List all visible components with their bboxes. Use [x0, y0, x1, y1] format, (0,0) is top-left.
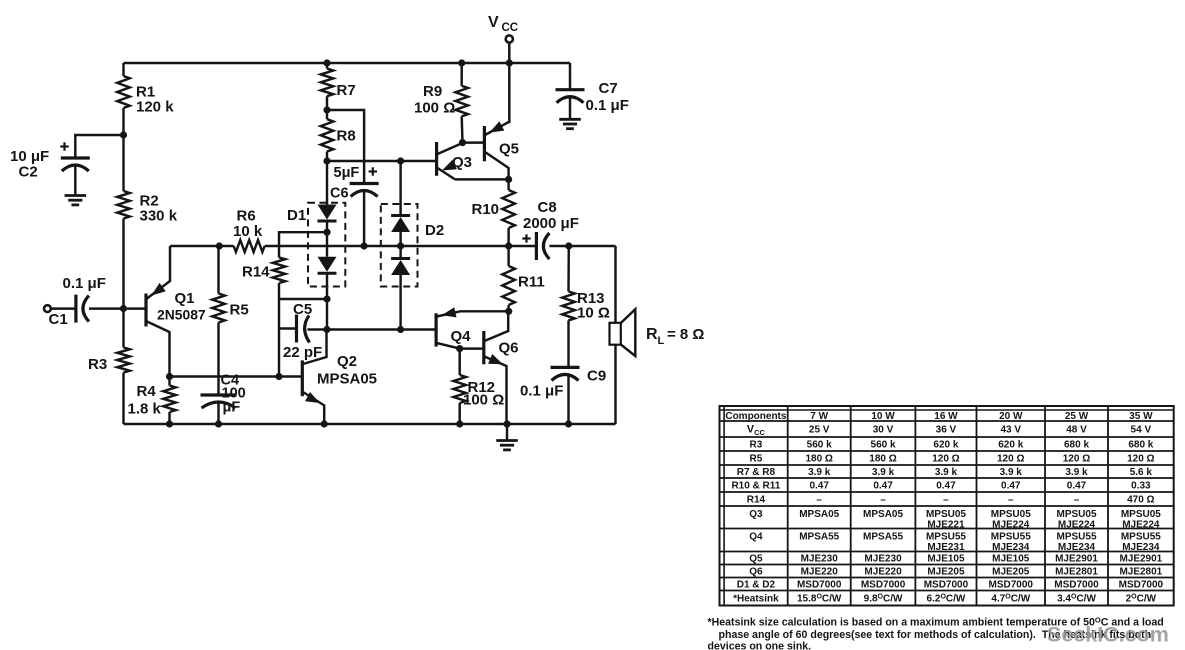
svg-text:R4: R4 — [137, 383, 157, 400]
svg-text:120 Ω: 120 Ω — [932, 454, 959, 465]
C6 plus — [369, 167, 377, 175]
svg-text:R14: R14 — [242, 264, 270, 281]
resistor R5 — [212, 246, 225, 395]
C2 ground wire — [74, 167, 76, 196]
svg-text:Q3: Q3 — [452, 154, 472, 171]
svg-text:30 V: 30 V — [873, 425, 894, 436]
node R7-R8 — [323, 106, 330, 113]
svg-text:20 W: 20 W — [999, 411, 1023, 422]
svg-text:MPSU05: MPSU05 — [1121, 509, 1161, 520]
svg-text:5.6 k: 5.6 k — [1130, 467, 1153, 478]
diode D1 — [318, 161, 337, 299]
svg-text:C7: C7 — [599, 80, 618, 97]
label R14 — [242, 264, 270, 281]
svg-text:10 Ω: 10 Ω — [577, 305, 610, 322]
resistor R10 — [502, 179, 515, 246]
speaker RL — [610, 309, 636, 356]
node C8 out — [565, 242, 572, 249]
ground below C7 — [559, 119, 581, 128]
label C9 — [520, 368, 606, 400]
node Q3 collector — [459, 139, 466, 146]
label D1 — [287, 207, 306, 224]
label R3 — [88, 356, 107, 373]
label C2 — [10, 148, 49, 181]
svg-text:R11: R11 — [518, 274, 545, 291]
svg-text:36 V: 36 V — [936, 425, 957, 436]
svg-text:R5: R5 — [750, 454, 763, 465]
svg-text:10 μF: 10 μF — [10, 148, 49, 165]
svg-text:μF: μF — [223, 400, 241, 416]
svg-text:0.1 μF: 0.1 μF — [63, 275, 106, 292]
svg-text:MJE234: MJE234 — [1058, 542, 1096, 553]
svg-text:MSD7000: MSD7000 — [1119, 580, 1164, 591]
transistor Q4 — [436, 307, 509, 348]
svg-text:Q4: Q4 — [749, 532, 763, 543]
transistor Q2 — [302, 330, 326, 425]
svg-text:MJE2901: MJE2901 — [1055, 554, 1098, 565]
svg-text:C9: C9 — [587, 368, 606, 385]
wire to Q3 base — [327, 160, 437, 162]
svg-text:Q2: Q2 — [337, 353, 357, 370]
svg-text:C8: C8 — [538, 199, 557, 216]
svg-text:15.8OC/W: 15.8OC/W — [797, 593, 842, 604]
svg-text:D1 & D2: D1 & D2 — [737, 580, 776, 591]
C8 plus — [522, 234, 530, 242]
node Q1 emitter junction — [216, 242, 223, 249]
node Q2e gnd — [321, 420, 328, 427]
svg-text:R10 & R11: R10 & R11 — [731, 481, 780, 492]
svg-text:120 Ω: 120 Ω — [1063, 454, 1090, 465]
svg-text:–: – — [880, 495, 886, 506]
svg-text:100 Ω: 100 Ω — [463, 392, 504, 409]
ground rail — [124, 423, 616, 425]
svg-text:2000 μF: 2000 μF — [523, 215, 579, 232]
svg-text:C1: C1 — [49, 311, 68, 328]
resistor R6 — [234, 240, 265, 252]
node Q2 collector — [323, 326, 330, 333]
svg-text:0.47: 0.47 — [809, 481, 829, 492]
transistor Q1 — [146, 246, 170, 377]
node Q1 collector — [166, 373, 173, 380]
svg-text:V: V — [488, 14, 499, 31]
node D1 bottom — [323, 295, 330, 302]
svg-text:120 Ω: 120 Ω — [1127, 454, 1154, 465]
svg-text:MJE105: MJE105 — [927, 554, 965, 565]
svg-text:MJE224: MJE224 — [992, 520, 1030, 531]
resistor R1 — [117, 63, 130, 135]
rail right of C8 — [549, 245, 615, 247]
svg-text:MPSU05: MPSU05 — [926, 509, 966, 520]
resistor R4 — [163, 377, 176, 425]
label R1 — [136, 84, 174, 116]
speaker feed — [614, 246, 616, 323]
svg-text:R: R — [646, 326, 658, 343]
svg-text:MPSA55: MPSA55 — [799, 532, 839, 543]
table grid — [720, 406, 1174, 606]
C7 ground stem — [569, 98, 571, 119]
svg-text:MJE220: MJE220 — [801, 567, 839, 578]
R14 bottom wire — [279, 299, 327, 377]
node D2 mid on rail — [397, 242, 404, 249]
svg-text:R14: R14 — [747, 495, 766, 506]
Vcc label — [488, 14, 518, 34]
input terminal C1 — [44, 305, 51, 312]
label D2 — [425, 222, 444, 239]
resistor R7 — [321, 63, 334, 110]
label Q5 — [499, 141, 519, 158]
svg-text:16 W: 16 W — [934, 411, 958, 422]
svg-text:MSD7000: MSD7000 — [924, 580, 969, 591]
svg-text:MSD7000: MSD7000 — [1054, 580, 1099, 591]
svg-text:0.1 μF: 0.1 μF — [520, 383, 563, 400]
svg-text:CC: CC — [502, 22, 519, 34]
node D2 top — [397, 157, 404, 164]
svg-text:620 k: 620 k — [998, 440, 1023, 451]
svg-text:MJE234: MJE234 — [992, 542, 1030, 553]
svg-text:Q3: Q3 — [749, 509, 763, 520]
svg-text:L: L — [658, 335, 665, 347]
capacitor C4 — [201, 395, 237, 408]
svg-text:560 k: 560 k — [871, 440, 896, 451]
svg-text:C5: C5 — [293, 301, 312, 318]
diode D2 — [391, 161, 410, 330]
label C8 — [523, 199, 579, 232]
wire Q2C to Q4 base — [327, 328, 436, 330]
resistor R13 — [562, 246, 575, 367]
wire R7R8 junction to C6 — [328, 110, 364, 184]
svg-text:0.33: 0.33 — [1131, 481, 1151, 492]
svg-text:VCC: VCC — [747, 424, 766, 438]
svg-text:10 W: 10 W — [871, 411, 895, 422]
svg-text:MPSU05: MPSU05 — [1056, 509, 1096, 520]
svg-text:MJE221: MJE221 — [927, 520, 965, 531]
C4 ground stem — [217, 403, 219, 424]
svg-text:Q5: Q5 — [749, 554, 763, 565]
svg-text:330 k: 330 k — [140, 208, 178, 225]
svg-text:6.2OC/W: 6.2OC/W — [927, 593, 966, 604]
svg-text:–: – — [816, 495, 822, 506]
node Q4 collector — [456, 345, 463, 352]
capacitor C5 — [279, 315, 327, 343]
label R8 — [337, 128, 356, 145]
node D1 mid — [323, 229, 330, 236]
svg-text:MPSU55: MPSU55 — [1056, 532, 1096, 543]
svg-text:22 pF: 22 pF — [283, 344, 322, 361]
D2 dashed box — [381, 204, 418, 287]
label R10 — [472, 201, 500, 218]
svg-text:9.8OC/W: 9.8OC/W — [864, 593, 903, 604]
svg-text:25 W: 25 W — [1065, 411, 1089, 422]
capacitor C9 — [551, 367, 580, 380]
svg-text:R8: R8 — [337, 128, 356, 145]
svg-text:120 k: 120 k — [136, 99, 174, 116]
label C5 — [283, 301, 322, 361]
table text — [725, 411, 1163, 604]
label R12 — [463, 379, 504, 409]
svg-text:MJE234: MJE234 — [1122, 542, 1160, 553]
svg-text:0.47: 0.47 — [1067, 481, 1087, 492]
svg-text:7 W: 7 W — [810, 411, 828, 422]
svg-text:48 V: 48 V — [1066, 425, 1087, 436]
svg-text:Q6: Q6 — [749, 567, 763, 578]
svg-text:5μF: 5μF — [334, 165, 360, 181]
svg-text:35 W: 35 W — [1129, 411, 1153, 422]
label Q2 — [317, 353, 377, 388]
capacitor C6 — [350, 184, 379, 197]
svg-text:MJE205: MJE205 — [927, 567, 965, 578]
svg-text:0.47: 0.47 — [936, 481, 956, 492]
resistor R3 — [117, 309, 130, 425]
svg-text:MJE2901: MJE2901 — [1119, 554, 1162, 565]
svg-text:560 k: 560 k — [807, 440, 832, 451]
node R11 bottom — [505, 308, 512, 315]
junction top rail R7 — [323, 59, 330, 66]
label R4 — [128, 383, 162, 418]
label R2 — [140, 193, 178, 225]
Vcc terminal — [506, 35, 513, 63]
node R12 gnd — [456, 420, 463, 427]
svg-text:Q5: Q5 — [499, 141, 519, 158]
C7 feed wire — [569, 63, 571, 90]
svg-text:MJE205: MJE205 — [992, 567, 1030, 578]
resistor R14 — [273, 232, 327, 299]
label R5 — [230, 302, 249, 319]
resistor R9 — [455, 63, 468, 143]
label C1 — [49, 275, 106, 328]
svg-text:D2: D2 — [425, 222, 444, 239]
svg-text:0.47: 0.47 — [873, 481, 893, 492]
capacitor C1 — [76, 295, 89, 323]
svg-text:Components: Components — [725, 411, 787, 422]
wire to C2 — [75, 135, 123, 158]
svg-text:3.9 k: 3.9 k — [872, 467, 895, 478]
svg-text:MPSA55: MPSA55 — [863, 532, 903, 543]
svg-text:3.9 k: 3.9 k — [808, 467, 831, 478]
transistor Q6 — [484, 311, 508, 424]
svg-text:3.9 k: 3.9 k — [935, 467, 958, 478]
junction top rail R9 — [458, 59, 465, 66]
wire C1 to base node — [89, 307, 146, 309]
label Q6 — [499, 340, 519, 357]
svg-text:= 8 Ω: = 8 Ω — [667, 326, 704, 343]
capacitor C8 — [536, 232, 549, 260]
svg-text:MSD7000: MSD7000 — [989, 580, 1034, 591]
svg-text:4.7OC/W: 4.7OC/W — [991, 593, 1030, 604]
svg-text:470 Ω: 470 Ω — [1127, 495, 1154, 506]
svg-text:2N5087: 2N5087 — [157, 307, 206, 323]
C2 plus — [60, 142, 68, 150]
svg-text:MJE105: MJE105 — [992, 554, 1030, 565]
svg-text:0.47: 0.47 — [1001, 481, 1021, 492]
svg-text:MJE231: MJE231 — [927, 542, 965, 553]
svg-text:0.1 μF: 0.1 μF — [586, 97, 629, 114]
label C6 — [330, 165, 359, 202]
svg-text:MJE224: MJE224 — [1122, 520, 1160, 531]
svg-text:3.4OC/W: 3.4OC/W — [1057, 593, 1096, 604]
ground symbol main — [496, 424, 518, 450]
label R6 — [233, 208, 263, 241]
node C4 gnd — [215, 420, 222, 427]
node Q5 emitter — [505, 176, 512, 183]
wire Q3 emitter rail — [455, 178, 509, 180]
transistor Q5 — [484, 63, 509, 179]
watermark — [1047, 623, 1169, 647]
svg-text:C6: C6 — [330, 186, 349, 202]
svg-text:1.8 k: 1.8 k — [128, 401, 162, 418]
svg-text:100 Ω: 100 Ω — [414, 100, 455, 117]
svg-text:680 k: 680 k — [1128, 440, 1153, 451]
svg-text:C2: C2 — [19, 164, 38, 181]
svg-text:25 V: 25 V — [809, 425, 830, 436]
svg-text:MPSU05: MPSU05 — [991, 509, 1031, 520]
D1 dashed box — [308, 203, 345, 287]
label Q1 — [157, 290, 206, 323]
top supply rail — [124, 62, 571, 64]
transistor Q3 — [437, 142, 463, 179]
C6 bottom wire — [363, 192, 365, 246]
label R11 — [518, 274, 545, 291]
resistor R8 — [321, 110, 334, 161]
svg-text:Q1: Q1 — [175, 290, 195, 307]
svg-text:2OC/W: 2OC/W — [1126, 593, 1157, 604]
svg-text:680 k: 680 k — [1064, 440, 1089, 451]
svg-text:3.9 k: 3.9 k — [1000, 467, 1023, 478]
resistor R12 — [453, 349, 466, 424]
resistor R11 — [502, 246, 515, 311]
svg-text:devices on one sink.: devices on one sink. — [708, 641, 812, 650]
svg-text:MPSA05: MPSA05 — [799, 509, 839, 520]
label C7 — [586, 80, 629, 114]
svg-text:MJE230: MJE230 — [864, 554, 902, 565]
svg-text:MPSU55: MPSU55 — [926, 532, 966, 543]
node main gnd — [503, 420, 510, 427]
svg-text:R7: R7 — [337, 82, 356, 99]
svg-text:Q4: Q4 — [451, 328, 472, 345]
resistor R2 — [117, 135, 130, 309]
svg-text:MPSA05: MPSA05 — [863, 509, 903, 520]
node C6 on rail — [361, 242, 368, 249]
node output rail — [505, 242, 512, 249]
capacitor C2 — [61, 158, 90, 171]
svg-text:MPSU55: MPSU55 — [1121, 532, 1161, 543]
svg-text:180 Ω: 180 Ω — [869, 454, 896, 465]
svg-text:MPSA05: MPSA05 — [317, 371, 377, 388]
label R7 — [337, 82, 356, 99]
node C9 bottom — [565, 420, 572, 427]
node Q1 base — [120, 305, 127, 312]
label R13 — [577, 290, 610, 322]
input wire — [51, 307, 76, 309]
svg-text:10 k: 10 k — [233, 223, 263, 240]
svg-text:MJE230: MJE230 — [801, 554, 839, 565]
wire Q1C to Q2 base — [170, 375, 303, 377]
node R1-R2 — [120, 131, 127, 138]
svg-text:620 k: 620 k — [933, 440, 958, 451]
svg-text:MJE2801: MJE2801 — [1119, 567, 1162, 578]
svg-text:D1: D1 — [287, 207, 306, 224]
svg-text:MSD7000: MSD7000 — [861, 580, 906, 591]
svg-text:120 Ω: 120 Ω — [997, 454, 1024, 465]
svg-text:R10: R10 — [472, 201, 500, 218]
svg-text:R7 & R8: R7 & R8 — [737, 467, 776, 478]
label C4 — [221, 373, 246, 416]
junction top rail Vcc — [506, 59, 513, 66]
ground below C2 — [65, 196, 87, 205]
svg-text:*Heatsink: *Heatsink — [733, 594, 779, 605]
wire Q3C to Q5 base — [463, 141, 485, 143]
output rail — [265, 245, 537, 247]
svg-text:180 Ω: 180 Ω — [805, 454, 832, 465]
label R9 — [414, 83, 455, 117]
node C5 branch on base wire — [275, 373, 282, 380]
label Q4 — [451, 328, 472, 345]
svg-text:MJE224: MJE224 — [1058, 520, 1096, 531]
mid rail left segment — [170, 245, 234, 247]
wire D1 bottom to Q2C node — [326, 299, 328, 330]
svg-text:MJE220: MJE220 — [864, 567, 902, 578]
node R4 gnd — [166, 420, 173, 427]
svg-text:Q6: Q6 — [499, 340, 519, 357]
svg-text:MJE2801: MJE2801 — [1055, 567, 1098, 578]
svg-text:43 V: 43 V — [1000, 425, 1021, 436]
svg-text:R3: R3 — [750, 440, 763, 451]
label RL — [646, 326, 704, 347]
svg-text:R9: R9 — [423, 83, 442, 100]
node D2 bottom — [397, 326, 404, 333]
svg-text:MSD7000: MSD7000 — [797, 580, 842, 591]
footnote — [708, 615, 1164, 650]
svg-text:R3: R3 — [88, 356, 107, 373]
node R8 bottom — [323, 157, 330, 164]
capacitor C7 — [556, 90, 585, 103]
svg-text:MPSU55: MPSU55 — [991, 532, 1031, 543]
wire Q4C to Q6 base — [460, 347, 484, 349]
C9 bottom wire — [567, 376, 569, 424]
svg-text:3.9 k: 3.9 k — [1065, 467, 1088, 478]
svg-text:R5: R5 — [230, 302, 249, 319]
speaker return — [614, 345, 616, 424]
svg-text:54 V: 54 V — [1131, 425, 1152, 436]
svg-text:SeekIC.com: SeekIC.com — [1047, 623, 1169, 647]
svg-text:–: – — [1008, 495, 1014, 506]
label Q3 — [452, 154, 472, 171]
svg-text:R6: R6 — [237, 208, 256, 225]
svg-text:–: – — [1074, 495, 1080, 506]
svg-text:–: – — [943, 495, 949, 506]
